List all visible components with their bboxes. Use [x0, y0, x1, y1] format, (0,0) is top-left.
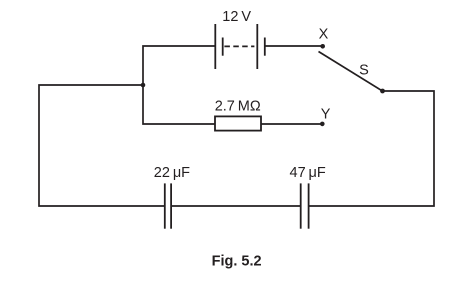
svg-text:X: X — [319, 26, 329, 42]
svg-text:12 V: 12 V — [222, 9, 251, 25]
svg-text:Y: Y — [321, 106, 331, 122]
svg-text:47 μF: 47 μF — [290, 165, 326, 181]
svg-text:22 μF: 22 μF — [154, 165, 190, 181]
svg-text:Fig. 5.2: Fig. 5.2 — [212, 254, 262, 270]
svg-text:2.7 MΩ: 2.7 MΩ — [215, 99, 261, 115]
svg-text:S: S — [359, 62, 369, 78]
